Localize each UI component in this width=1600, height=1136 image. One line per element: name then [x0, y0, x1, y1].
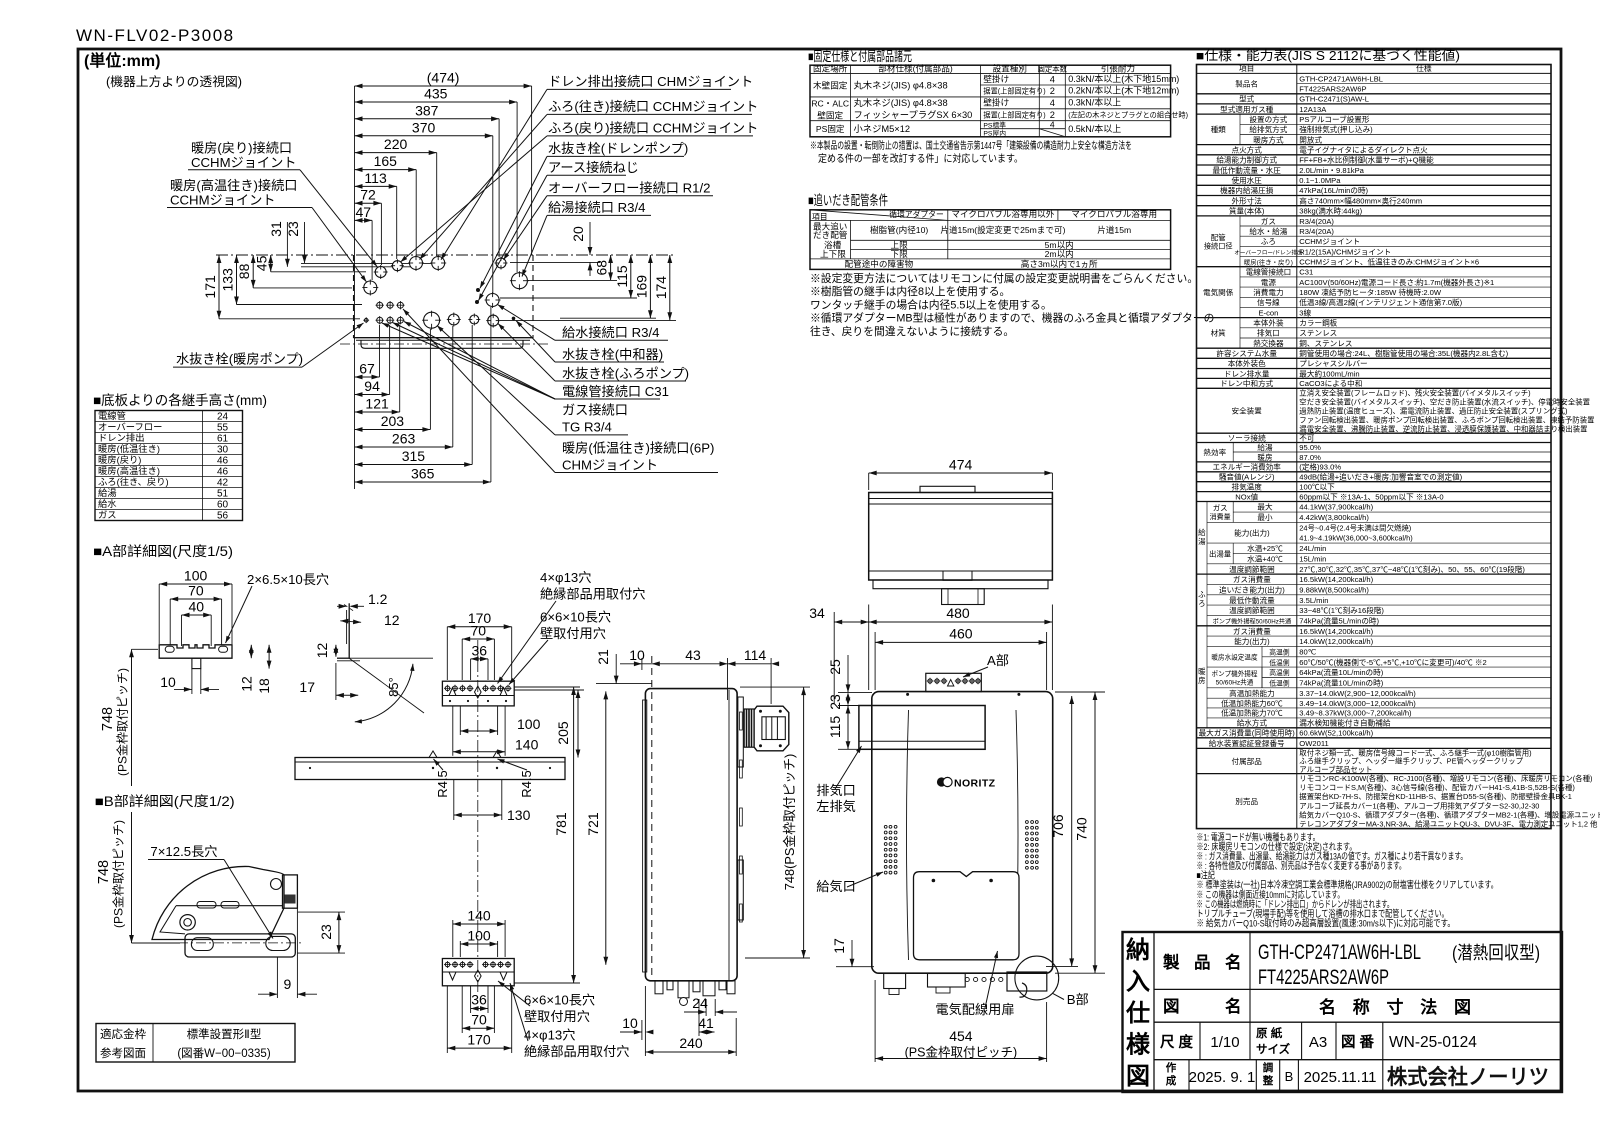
- svg-text:型式: 型式: [1239, 94, 1255, 104]
- svg-text:(PS金枠取付ピッチ): (PS金枠取付ピッチ): [905, 1045, 1018, 1060]
- svg-text:電子イグナイタによるダイレクト点火: 電子イグナイタによるダイレクト点火: [1299, 145, 1428, 155]
- svg-text:4×φ13穴: 4×φ13穴: [524, 1028, 575, 1043]
- front unit body: [872, 692, 1053, 974]
- svg-text:項目: 項目: [812, 212, 828, 221]
- port: ガス接続口 TG R3/4: [424, 312, 440, 328]
- title block outer frame: [1123, 932, 1563, 1092]
- port: ふろ(戻り): [392, 261, 402, 271]
- svg-text:絶縁部品用取付穴: 絶縁部品用取付穴: [540, 587, 646, 602]
- svg-text:24: 24: [217, 411, 229, 422]
- svg-text:漏電安全装置、沸騰防止装置、逆流防止装置、浸透膜保護装置、中: 漏電安全装置、沸騰防止装置、逆流防止装置、浸透膜保護装置、中和器詰まり検出装置: [1299, 424, 1587, 433]
- svg-text:暖房(高温往き)接続口: 暖房(高温往き)接続口: [170, 177, 297, 193]
- svg-text:748: 748: [96, 860, 112, 884]
- svg-text:据置架台KD-7H-S、防振架台KD-11HB-S、据置台D: 据置架台KD-7H-S、防振架台KD-11HB-S、据置台D55-S(各種)、防…: [1299, 792, 1572, 801]
- 図名 row: [1249, 989, 1251, 1022]
- svg-text:41: 41: [698, 1015, 714, 1031]
- bolt with washer: [180, 915, 195, 930]
- plate slots: [197, 902, 216, 909]
- svg-text:(図番W−00−0335): (図番W−00−0335): [177, 1047, 270, 1060]
- svg-text:R4.5: R4.5: [519, 770, 534, 797]
- svg-text:GTH-CP2471AW6H-LBL: GTH-CP2471AW6H-LBL: [1299, 74, 1383, 83]
- svg-text:プレシャスシルバー: プレシャスシルバー: [1299, 359, 1367, 368]
- svg-text:銅管使用の場合:24L、樹脂管使用の場合:35L(機器内2.: 銅管使用の場合:24L、樹脂管使用の場合:35L(機器内2.8L含む): [1299, 348, 1508, 358]
- svg-text:A3: A3: [1309, 1034, 1327, 1051]
- svg-text:781: 781: [553, 812, 569, 836]
- exhaust box (left top): [859, 706, 985, 750]
- svg-text:25: 25: [827, 659, 843, 675]
- svg-text:左排気: 左排気: [816, 799, 856, 814]
- svg-text:カラー鋼板: カラー鋼板: [1299, 318, 1337, 328]
- svg-text:ふろ: ふろ: [1261, 237, 1276, 246]
- svg-text:88: 88: [236, 263, 252, 279]
- port: 給湯接続口 R3/4: [511, 273, 527, 289]
- svg-text:立消え安全装置(フレームロッド)、残火安全装置(バイメタルス: 立消え安全装置(フレームロッド)、残火安全装置(バイメタルスイッチ): [1299, 389, 1530, 398]
- B-detail fan shaped bracket: [152, 866, 284, 939]
- svg-text:■追いだき配管条件: ■追いだき配管条件: [808, 192, 888, 208]
- svg-text:CCHMジョイント: CCHMジョイント: [1299, 237, 1360, 246]
- svg-text:2025. 9. 1: 2025. 9. 1: [1189, 1069, 1256, 1086]
- svg-text:名: 名: [1225, 952, 1242, 972]
- svg-text:(左記の木ネジとプラグとの組合せ時): (左記の木ネジとプラグとの組合せ時): [1068, 111, 1188, 120]
- svg-text:下限: 下限: [890, 249, 908, 259]
- svg-text:オーバーフロー接続口 R1/2: オーバーフロー接続口 R1/2: [548, 180, 710, 196]
- svg-text:ドレン排水量: ドレン排水量: [1224, 368, 1270, 378]
- front bottom fittings: [884, 974, 906, 989]
- svg-text:12: 12: [314, 643, 330, 659]
- svg-text:140: 140: [515, 737, 539, 753]
- svg-text:給湯: 給湯: [1257, 442, 1273, 452]
- svg-text:0.3kN/本以上(木下地15mm): 0.3kN/本以上(木下地15mm): [1068, 73, 1179, 84]
- svg-text:給排気方式: 給排気方式: [1249, 124, 1287, 134]
- svg-text:消費量: 消費量: [1210, 512, 1231, 521]
- port: 水抜き栓(中和器): [488, 315, 499, 326]
- dim 1.2: [337, 605, 346, 607]
- side view unit body: [645, 689, 737, 981]
- svg-text:水抜き栓(ドレンポンプ): 水抜き栓(ドレンポンプ): [548, 141, 688, 156]
- svg-text:2025.11.11: 2025.11.11: [1304, 1069, 1377, 1086]
- svg-text:型式適用ガス種: 型式適用ガス種: [1220, 104, 1274, 114]
- svg-text:74kPa(流量10L/minの時): 74kPa(流量10L/minの時): [1299, 678, 1383, 688]
- svg-text:低温加熱能力60℃: 低温加熱能力60℃: [1221, 698, 1283, 708]
- svg-text:給水方式: 給水方式: [1237, 718, 1268, 728]
- svg-text:図: 図: [1163, 997, 1180, 1016]
- svg-text:ふろ(往き)接続口 CCHMジョイント: ふろ(往き)接続口 CCHMジョイント: [548, 98, 758, 114]
- NORITZ logo: [937, 777, 946, 786]
- port: ドレン排出: [432, 257, 445, 270]
- svg-text:給湯能力制御方式: 給湯能力制御方式: [1216, 155, 1277, 165]
- svg-text:95.0%: 95.0%: [1299, 443, 1321, 452]
- svg-text:(潜熱回収型): (潜熱回収型): [1452, 943, 1540, 963]
- svg-text:100: 100: [184, 568, 208, 584]
- svg-text:R3/4(20A): R3/4(20A): [1299, 227, 1334, 236]
- 水抜き栓(暖房ポンプ) tiny port: [364, 318, 368, 322]
- svg-text:高温加熱能力: 高温加熱能力: [1229, 688, 1275, 698]
- drain pump plug dot: [476, 288, 480, 292]
- svg-text:23: 23: [827, 694, 843, 710]
- svg-text:ソーラ接続: ソーラ接続: [1228, 433, 1266, 443]
- dim 12 (flange): [340, 621, 361, 623]
- svg-text:CCHMジョイント: CCHMジョイント: [170, 193, 276, 208]
- svg-text:片道15m: 片道15m: [1097, 224, 1131, 235]
- svg-text:748(PS金枠取付ピッチ): 748(PS金枠取付ピッチ): [782, 754, 797, 891]
- svg-text:FT4225ARS2AW6P: FT4225ARS2AW6P: [1299, 85, 1366, 94]
- svg-text:CCHMジョイント、低温往きのみ:CHMジョイント×6: CCHMジョイント、低温往きのみ:CHMジョイント×6: [1299, 257, 1479, 267]
- svg-text:図: 図: [1126, 1063, 1150, 1090]
- svg-text:WN-25-0124: WN-25-0124: [1389, 1034, 1477, 1051]
- A-detail bracket dims 100/70/40: [159, 583, 232, 585]
- svg-text:B: B: [1285, 1069, 1294, 1084]
- svg-text:壁固定: 壁固定: [817, 109, 843, 120]
- svg-text:(PS金枠取付ピッチ): (PS金枠取付ピッチ): [115, 668, 130, 776]
- svg-text:小ネジM5×12: 小ネジM5×12: [854, 124, 911, 134]
- svg-text:4×φ13穴: 4×φ13穴: [540, 570, 591, 585]
- dim 12 vertical: [335, 645, 337, 657]
- 納入仕様図 column: [1153, 932, 1155, 1092]
- pipe table grid: [810, 210, 1171, 270]
- condensate dot: [512, 317, 516, 321]
- svg-text:銅、ステンレス: 銅、ステンレス: [1299, 338, 1352, 348]
- center dash-dot axis: [477, 640, 479, 995]
- B部 callout circle: [1015, 956, 1059, 1000]
- svg-text:24号~0.4号(2.4号未満は間欠燃焼): 24号~0.4号(2.4号未満は間欠燃焼): [1299, 523, 1411, 532]
- svg-text:64kPa(流量10L/minの時): 64kPa(流量10L/minの時): [1299, 667, 1383, 677]
- exhaust duct neck: [744, 709, 754, 747]
- svg-text:(単位:mm): (単位:mm): [84, 51, 160, 70]
- svg-text:本体外装: 本体外装: [1253, 318, 1284, 328]
- svg-text:46: 46: [217, 466, 229, 477]
- svg-text:9.88kW(8,500kcal/h): 9.88kW(8,500kcal/h): [1299, 585, 1369, 594]
- base tray lip: [361, 340, 523, 348]
- svg-text:名 称 寸 法 図: 名 称 寸 法 図: [1319, 997, 1477, 1017]
- svg-text:(474): (474): [427, 70, 460, 86]
- svg-text:24L/min: 24L/min: [1299, 544, 1326, 553]
- svg-text:0.2kN/本以上(木下地12mm): 0.2kN/本以上(木下地12mm): [1068, 85, 1179, 96]
- svg-text:外形寸法: 外形寸法: [1232, 195, 1263, 205]
- svg-text:B部: B部: [1067, 992, 1089, 1007]
- svg-text:リモコンコードS,M(各種)、3心信号線(各種)、配管カバー: リモコンコードS,M(各種)、3心信号線(各種)、配管カバーH41-S,41B-…: [1299, 783, 1575, 792]
- svg-text:据置(上部固定有り): 据置(上部固定有り): [983, 111, 1045, 120]
- svg-text:47: 47: [356, 204, 372, 220]
- svg-text:最大約100mL/min: 最大約100mL/min: [1299, 368, 1359, 378]
- svg-text:空だき安全装置(バイメタルスイッチ)、空だき防止装置(水流ス: 空だき安全装置(バイメタルスイッチ)、空だき防止装置(水流スイッチ)、停電時安全…: [1299, 398, 1590, 407]
- svg-text:電源: 電源: [1261, 278, 1277, 287]
- svg-text:220: 220: [384, 136, 408, 152]
- svg-text:36: 36: [472, 642, 488, 658]
- svg-text:40: 40: [189, 599, 205, 615]
- svg-text:740: 740: [1074, 817, 1090, 841]
- svg-text:387: 387: [415, 102, 439, 118]
- svg-text:365: 365: [411, 466, 435, 482]
- svg-text:36: 36: [471, 992, 487, 1008]
- svg-text:C31: C31: [1299, 268, 1313, 277]
- svg-text:44.1kW(37,900kcal/h): 44.1kW(37,900kcal/h): [1299, 503, 1373, 512]
- port: 水抜き栓(ふろポンプ): [448, 314, 459, 325]
- svg-text:納: 納: [1126, 936, 1150, 964]
- bottom dimension stack: [355, 376, 380, 378]
- svg-text:CaCO3による中和: CaCO3による中和: [1299, 378, 1362, 388]
- svg-text:だき配管: だき配管: [813, 229, 848, 240]
- svg-text:12: 12: [384, 612, 400, 628]
- svg-text:114: 114: [744, 647, 767, 663]
- svg-text:85°: 85°: [386, 677, 401, 697]
- svg-text:169: 169: [633, 275, 649, 299]
- svg-text:漏水検知機能付き自動補給: 漏水検知機能付き自動補給: [1299, 718, 1391, 728]
- spec table outer frame: [1197, 65, 1552, 829]
- svg-text:信号線: 信号線: [1257, 297, 1280, 307]
- svg-text:130: 130: [507, 807, 531, 823]
- row boundary lines: [1297, 83, 1551, 85]
- svg-text:140: 140: [467, 908, 491, 924]
- svg-text:使用水圧: 使用水圧: [1232, 175, 1263, 185]
- svg-text:フィッシャープラグSX 6×30: フィッシャープラグSX 6×30: [854, 109, 973, 120]
- svg-text:木壁固定: 木壁固定: [813, 79, 848, 90]
- bracket hole row: [445, 686, 450, 691]
- svg-text:33~48℃(1℃刻み16段階): 33~48℃(1℃刻み16段階): [1299, 605, 1384, 615]
- svg-text:100℃以下: 100℃以下: [1299, 483, 1335, 492]
- svg-text:丸木ネジ(JIS) φ4.8×38: 丸木ネジ(JIS) φ4.8×38: [854, 79, 948, 90]
- svg-text:高温側: 高温側: [1269, 647, 1290, 656]
- svg-text:ガス: ガス: [98, 510, 117, 520]
- svg-text:14.0kW(12,000kcal/h): 14.0kW(12,000kcal/h): [1299, 637, 1373, 646]
- svg-text:0.3kN/本以上: 0.3kN/本以上: [1068, 97, 1121, 108]
- vent holes left: [884, 825, 887, 828]
- left mounting rail: [643, 700, 647, 972]
- svg-text:TG R3/4: TG R3/4: [562, 420, 612, 435]
- svg-text:21: 21: [595, 649, 611, 665]
- svg-text:■A部詳細図(尺度1/5): ■A部詳細図(尺度1/5): [93, 544, 233, 559]
- svg-text:※ 給気カバーQ10-S取付時のみ超高層設置(風速:30m/: ※ 給気カバーQ10-S取付時のみ超高層設置(風速:30m/s以下)に対応可能で…: [1197, 917, 1455, 928]
- pipe lines to heating ports: [301, 262, 438, 264]
- svg-text:2m以内: 2m以内: [1045, 248, 1074, 259]
- svg-text:給水: 給水: [98, 498, 117, 509]
- electrical door: [914, 872, 1020, 960]
- svg-text:別売品: 別売品: [1235, 796, 1258, 806]
- svg-text:最低作動流量: 最低作動流量: [1229, 595, 1275, 605]
- svg-text:721: 721: [585, 812, 601, 836]
- svg-text:■固定仕様と付属部品諸元: ■固定仕様と付属部品諸元: [808, 49, 912, 64]
- svg-text:製品名: 製品名: [1235, 78, 1258, 88]
- svg-text:6×6×10長穴: 6×6×10長穴: [524, 993, 595, 1008]
- earth screw dot: [475, 300, 479, 304]
- dim 10 (tab width): [191, 669, 193, 694]
- svg-text:315: 315: [402, 448, 426, 464]
- svg-text:給水装置認証登録番号: 給水装置認証登録番号: [1209, 738, 1285, 748]
- svg-text:様: 様: [1126, 1031, 1151, 1059]
- top profile view body: [869, 493, 1053, 581]
- svg-text:マイクロバブル浴専用: マイクロバブル浴専用: [1071, 208, 1157, 219]
- svg-text:※樹脂管の継手は内径8以上を使用する。: ※樹脂管の継手は内径8以上を使用する。: [810, 284, 1010, 298]
- dims 706/740: [1055, 691, 1105, 693]
- svg-text:本体外装色: 本体外装色: [1228, 358, 1266, 368]
- 748 right pitch dim: [740, 686, 810, 688]
- 尺度 row: [1199, 1022, 1201, 1059]
- svg-text:3.49~8.37kW(3,000~7,200kcal/h): 3.49~8.37kW(3,000~7,200kcal/h): [1299, 709, 1412, 718]
- svg-text:給湯: 給湯: [98, 487, 117, 498]
- svg-text:7×12.5長穴: 7×12.5長穴: [150, 844, 217, 859]
- svg-text:87.0%: 87.0%: [1299, 453, 1321, 462]
- svg-text:ふ: ふ: [1198, 590, 1206, 599]
- dims 34/480/460: [834, 621, 869, 623]
- svg-text:68: 68: [594, 260, 610, 276]
- svg-text:3.5L/min: 3.5L/min: [1299, 596, 1328, 605]
- svg-text:暖房(往き・戻り): 暖房(往き・戻り): [1244, 258, 1293, 267]
- svg-text:給湯接続口 R3/4: 給湯接続口 R3/4: [548, 199, 645, 215]
- svg-text:壁掛け: 壁掛け: [983, 73, 1009, 84]
- svg-text:接続口径: 接続口径: [1204, 241, 1233, 250]
- svg-text:ワンタッチ継手の場合は内径5.5以上を使用する。: ワンタッチ継手の場合は内径5.5以上を使用する。: [810, 297, 1052, 311]
- svg-text:74kPa(流量5L/minの時): 74kPa(流量5L/minの時): [1299, 615, 1379, 625]
- svg-text:ポンプ機外揚程: ポンプ機外揚程: [1212, 669, 1258, 678]
- svg-text:固定場所: 固定場所: [813, 63, 848, 74]
- svg-text:リモコンRC-K100W(各種)、RC-J100(各種)、増: リモコンRC-K100W(各種)、RC-J100(各種)、増設リモコン(各種)、…: [1299, 774, 1592, 783]
- svg-text:水抜き栓(中和器): 水抜き栓(中和器): [562, 347, 663, 362]
- unit right edge dashed: [532, 255, 534, 338]
- svg-text:■B部詳細図(尺度1/2): ■B部詳細図(尺度1/2): [95, 794, 235, 809]
- port: 給水接続口 R3/4: [486, 294, 499, 307]
- svg-text:PS固定: PS固定: [816, 123, 845, 134]
- svg-text:474: 474: [949, 457, 973, 473]
- svg-text:ドレン中和方式: ドレン中和方式: [1220, 378, 1274, 388]
- svg-text:ふろ(戻り)接続口 CCHMジョイント: ふろ(戻り)接続口 CCHMジョイント: [548, 120, 758, 136]
- small latches right: [740, 712, 743, 730]
- svg-text:ポンプ機外揚程50/60Hz共通: ポンプ機外揚程50/60Hz共通: [1213, 617, 1292, 625]
- svg-text:名: 名: [1225, 996, 1242, 1016]
- svg-text:絶縁部品用取付穴: 絶縁部品用取付穴: [524, 1044, 630, 1059]
- svg-text:113: 113: [364, 170, 387, 186]
- svg-text:42: 42: [217, 477, 229, 488]
- dim 130: [453, 780, 455, 820]
- svg-text:ドレン排出接続口 CHMジョイント: ドレン排出接続口 CHMジョイント: [548, 73, 753, 89]
- svg-text:70: 70: [471, 1012, 487, 1028]
- side view top dims 21/10/43/114: [615, 654, 617, 684]
- svg-text:9: 9: [284, 976, 292, 992]
- reference frame table: [96, 1024, 295, 1063]
- svg-text:最大: 最大: [1257, 502, 1273, 512]
- svg-text:56: 56: [217, 510, 229, 521]
- svg-text:低温側: 低温側: [1269, 679, 1290, 688]
- svg-text:電気配線用扉: 電気配線用扉: [935, 1002, 1014, 1017]
- svg-text:ステンレス: ステンレス: [1299, 329, 1337, 338]
- svg-text:機器内給湯圧損: 機器内給湯圧損: [1220, 185, 1274, 195]
- svg-text:A部: A部: [987, 653, 1009, 668]
- svg-text:不可: 不可: [1299, 434, 1315, 443]
- svg-text:アース接続ねじ: アース接続ねじ: [548, 159, 639, 175]
- port: 電線管接続口 C31: [470, 315, 479, 324]
- svg-text:165: 165: [374, 153, 398, 169]
- svg-text:追いだき能力(出力): 追いだき能力(出力): [1219, 584, 1285, 594]
- svg-text:丸木ネジ(JIS) φ4.8×38: 丸木ネジ(JIS) φ4.8×38: [854, 97, 948, 108]
- svg-text:12: 12: [238, 676, 254, 692]
- svg-text:2: 2: [1050, 110, 1055, 120]
- svg-text:WN-FLV02-P3008: WN-FLV02-P3008: [76, 26, 235, 45]
- svg-text:PS標準: PS標準: [983, 120, 1006, 129]
- svg-text:配管: 配管: [1211, 232, 1227, 242]
- latch detail: [285, 895, 296, 904]
- svg-text:暖房(低温往き): 暖房(低温往き): [98, 443, 160, 454]
- side bottom fittings: [655, 981, 663, 994]
- svg-text:原 紙: 原 紙: [1256, 1026, 1283, 1040]
- A-detail bracket body: [159, 645, 232, 658]
- svg-text:エネルギー消費効率: エネルギー消費効率: [1213, 462, 1282, 472]
- svg-text:263: 263: [392, 431, 416, 447]
- svg-text:壁掛け: 壁掛け: [983, 97, 1009, 108]
- svg-text:過熱防止装置(温度ヒューズ)、漏電流防止装置、過圧防止安全装: 過熱防止装置(温度ヒューズ)、漏電流防止装置、過圧防止安全装置(スプリング式): [1299, 407, 1567, 416]
- svg-text:20: 20: [570, 226, 586, 242]
- bracket slot holes: [165, 646, 174, 652]
- svg-text:消費電力: 消費電力: [1253, 287, 1283, 297]
- svg-text:点火方式: 点火方式: [1232, 145, 1263, 155]
- svg-text:47kPa(16L/minの時): 47kPa(16L/minの時): [1299, 186, 1368, 195]
- top wall bracket body: [442, 681, 514, 706]
- dims 31/23 vertical: [286, 222, 288, 267]
- svg-text:固定本数: 固定本数: [1038, 65, 1068, 74]
- svg-text:80℃: 80℃: [1299, 647, 1316, 656]
- dims 12/18 (bracket profile): [250, 645, 252, 658]
- bottom wall bracket body: [442, 959, 514, 986]
- svg-text:6×6×10長穴: 6×6×10長穴: [540, 610, 611, 625]
- svg-text:R1/2(15A)/CHMジョイント: R1/2(15A)/CHMジョイント: [1299, 247, 1391, 256]
- svg-text:AC100V(50/60Hz)電源コード長さ:約1.7m(機: AC100V(50/60Hz)電源コード長さ:約1.7m(機器外長さ)※1: [1299, 277, 1494, 287]
- dim 9: [276, 957, 278, 998]
- group vertical dividers: [1239, 114, 1241, 145]
- svg-text:133: 133: [220, 268, 236, 292]
- svg-text:排気口: 排気口: [1257, 328, 1280, 338]
- svg-text:暖房(戻り): 暖房(戻り): [98, 454, 141, 465]
- port: ふろ(往き): [410, 257, 423, 270]
- svg-text:湯: 湯: [1198, 537, 1206, 546]
- svg-text:能力(出力): 能力(出力): [1234, 636, 1270, 646]
- base center line dash-dot: [340, 343, 548, 345]
- bottom row: [1188, 1060, 1190, 1092]
- svg-text:入: 入: [1126, 969, 1150, 996]
- svg-text:製: 製: [1162, 952, 1180, 972]
- svg-text:熱効率: 熱効率: [1203, 447, 1226, 457]
- svg-text:暖房水設定温度: 暖房水設定温度: [1211, 653, 1258, 662]
- svg-text:低温側: 低温側: [1269, 658, 1290, 667]
- svg-text:高さ3m以内で1ヵ所: 高さ3m以内で1ヵ所: [1021, 258, 1098, 269]
- svg-text:※設定変更方法についてはリモコンに付属の設定変更説明書をごら: ※設定変更方法についてはリモコンに付属の設定変更説明書をごらんください。: [810, 271, 1198, 285]
- svg-text:暖房(戻り)接続口: 暖房(戻り)接続口: [191, 140, 292, 156]
- svg-text:水抜き栓(暖房ポンプ): 水抜き栓(暖房ポンプ): [176, 352, 303, 367]
- svg-text:NORITZ: NORITZ: [954, 778, 996, 790]
- svg-text:100: 100: [517, 716, 541, 732]
- svg-text:17: 17: [831, 938, 847, 954]
- svg-text:標準設置形Ⅱ型: 標準設置形Ⅱ型: [187, 1027, 262, 1041]
- dim 23: [298, 911, 345, 913]
- svg-text:100: 100: [467, 928, 491, 944]
- svg-text:460: 460: [949, 626, 973, 642]
- dims 781/721: [514, 686, 580, 688]
- svg-text:熱交換器: 熱交換器: [1253, 338, 1284, 348]
- svg-text:23: 23: [318, 924, 334, 940]
- svg-text:成: 成: [1166, 1074, 1177, 1087]
- svg-text:51: 51: [217, 488, 229, 499]
- svg-text:尺 度: 尺 度: [1160, 1033, 1194, 1051]
- svg-text:0.5kN/本以上: 0.5kN/本以上: [1068, 123, 1121, 134]
- svg-text:給水接続口 R3/4: 給水接続口 R3/4: [562, 324, 659, 340]
- svg-text:70: 70: [471, 623, 487, 639]
- svg-text:10: 10: [629, 647, 645, 663]
- svg-text:設置種別: 設置種別: [993, 63, 1027, 74]
- svg-text:4: 4: [1050, 98, 1055, 108]
- svg-text:60.6kW(52,100kcal/h): 60.6kW(52,100kcal/h): [1299, 729, 1373, 738]
- svg-text:騒音値(Aレンジ): 騒音値(Aレンジ): [1219, 472, 1275, 482]
- svg-text:CCHMジョイント: CCHMジョイント: [191, 155, 297, 170]
- svg-text:60ppm以下 ※13A-1、50ppm以下 ※13A-0: 60ppm以下 ※13A-1、50ppm以下 ※13A-0: [1299, 492, 1443, 501]
- port: 暖房(高温往き) CCHM: [364, 281, 377, 294]
- svg-text:高さ740mm×幅480mm×奥行240mm: 高さ740mm×幅480mm×奥行240mm: [1299, 195, 1422, 205]
- svg-text:4: 4: [1050, 74, 1055, 84]
